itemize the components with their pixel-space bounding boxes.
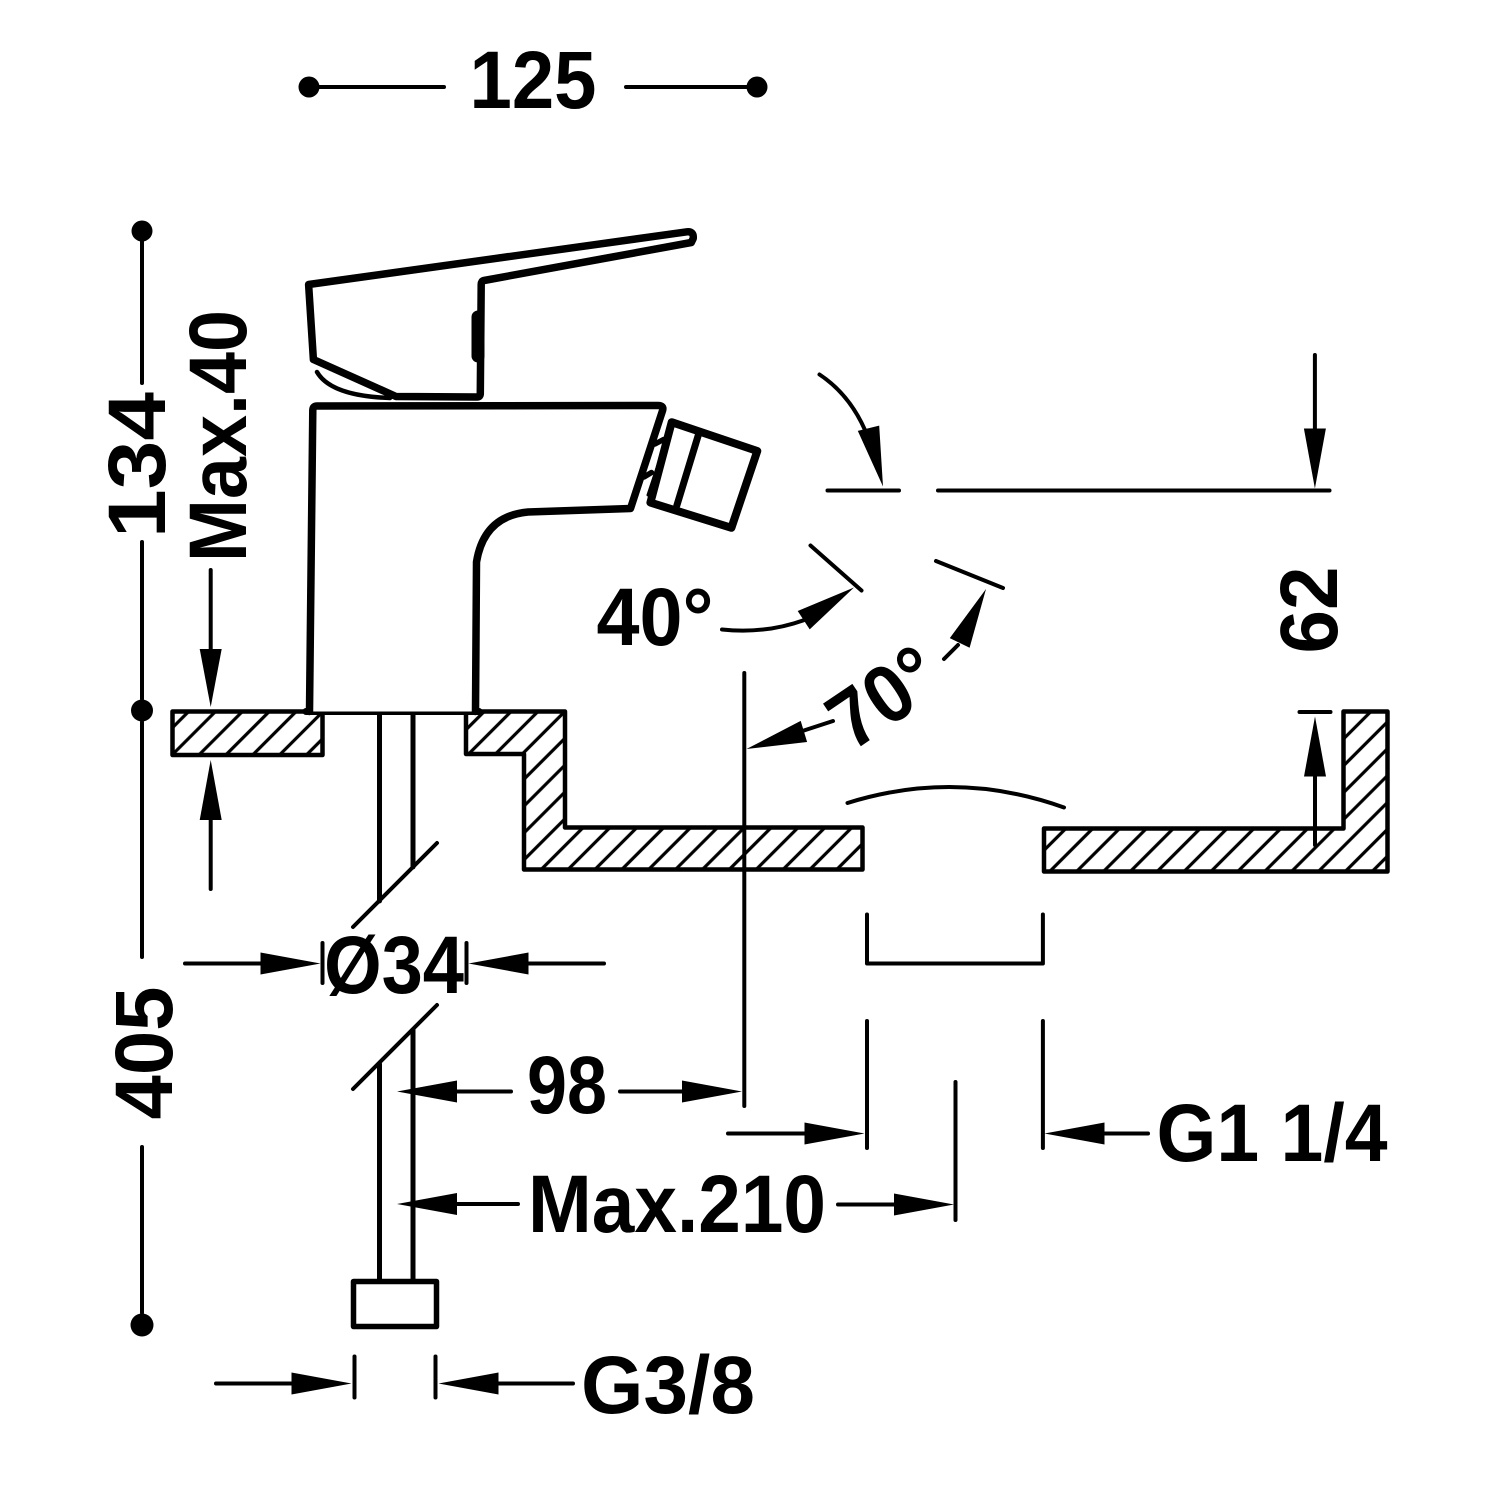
dim G3/8 right arrowhead <box>439 1373 499 1395</box>
faucet body <box>310 406 663 712</box>
faucet handle lever <box>309 232 694 397</box>
handle cartridge pin <box>472 317 485 356</box>
dim 70 right arrowhead <box>950 589 986 648</box>
svg-text:405: 405 <box>99 987 190 1120</box>
aerator inner thin line <box>648 429 670 495</box>
deck middle hatched section (bowl rim) <box>466 712 863 870</box>
dim 98 left arrowhead <box>397 1081 457 1103</box>
dim 98 left shaft <box>455 1090 511 1094</box>
dim 70 right arc segment <box>944 645 958 659</box>
dim O34 left arrowhead <box>261 953 321 975</box>
dim 98 right shaft <box>620 1090 684 1094</box>
dim G1 1/4 right arrowhead <box>1045 1123 1105 1145</box>
svg-text:125: 125 <box>470 35 597 126</box>
dim G3/8 left tick <box>353 1357 357 1398</box>
supply pipe right line lower <box>411 1030 416 1283</box>
dim 40 upper arc <box>820 375 866 431</box>
deck left hatched section <box>173 712 323 756</box>
outlet axis extension line <box>742 673 746 1106</box>
pipe break line lower <box>353 1005 437 1089</box>
faucet ball joint arc <box>317 372 390 398</box>
dim 405 lower line <box>140 1147 144 1313</box>
dim G3/8 right shaft <box>497 1382 573 1386</box>
dim 134 lower line <box>140 542 144 699</box>
dim 134 upper line <box>140 240 144 383</box>
dim 134 top dot <box>132 221 153 242</box>
dim 134/405 middle dot <box>131 700 153 722</box>
dim Max.40 upper arrowhead <box>200 649 222 707</box>
dim 125 right line <box>626 85 757 89</box>
supply pipe left line upper <box>377 714 382 901</box>
dim 70 left arrowhead <box>747 721 808 749</box>
svg-text:62: 62 <box>1264 567 1355 654</box>
dim G3/8 left shaft <box>216 1382 293 1386</box>
outlet reference line left segment <box>828 489 900 493</box>
faucet base line <box>306 708 479 715</box>
dim G1 1/4 right shaft <box>1102 1132 1148 1136</box>
deck right hatched section (bowl rim) <box>1044 712 1388 872</box>
dim 70 tick <box>936 561 1003 588</box>
dim 405 upper line <box>140 722 144 957</box>
dim Max.40 lower arrow shaft <box>209 818 213 889</box>
dim 98 right arrowhead <box>682 1081 742 1103</box>
svg-text:Max.210: Max.210 <box>528 1159 826 1250</box>
dim 40 lower arc arrowhead <box>798 588 854 630</box>
drain right extension line <box>1041 1021 1045 1148</box>
dim 125 right dot <box>747 77 768 98</box>
supply pipe right line upper <box>411 714 416 867</box>
dim O34 right arrow shaft <box>527 962 604 966</box>
dim 62 top tick <box>1300 710 1331 714</box>
supply pipe left line lower <box>377 1064 382 1283</box>
drain center extension line <box>954 1082 958 1220</box>
svg-text:G1 1/4: G1 1/4 <box>1157 1088 1388 1179</box>
dim G1 1/4 left arrowhead <box>805 1123 865 1145</box>
svg-text:G3/8: G3/8 <box>581 1340 755 1431</box>
dim 62 lower arrow shaft <box>1313 775 1317 845</box>
dim 125 left line <box>309 85 444 89</box>
outlet reference line right segment <box>938 489 1330 493</box>
dim O34 left arrow shaft <box>185 962 262 966</box>
aerator body <box>650 422 757 528</box>
dim 62 lower arrowhead <box>1304 717 1326 777</box>
dim 40 lower arc <box>722 620 804 630</box>
dim G3/8 right tick <box>434 1357 438 1398</box>
dim 70 left arc segment <box>804 721 833 731</box>
dim 125 left dot <box>299 77 320 98</box>
dim Max.40 lower arrowhead <box>200 760 222 820</box>
dim 62 upper arrowhead <box>1304 429 1326 489</box>
dim Max.210 left shaft <box>455 1202 518 1206</box>
pipe break line upper <box>353 843 437 927</box>
aerator collar tick upper <box>655 440 664 445</box>
drain left extension line <box>865 1021 869 1148</box>
drain hole U bracket <box>867 915 1043 964</box>
G3/8 connection block <box>354 1282 437 1327</box>
dim G1 1/4 left shaft <box>728 1132 806 1136</box>
dim 62 upper arrow shaft <box>1313 355 1317 430</box>
svg-text:134: 134 <box>92 392 183 538</box>
aerator divider line <box>677 435 699 506</box>
dim Max.210 left arrowhead <box>397 1193 457 1215</box>
svg-text:98: 98 <box>527 1040 607 1131</box>
dim 405 bottom dot <box>131 1314 154 1337</box>
aerator collar tick lower <box>644 473 652 478</box>
dim Max.40 upper arrow shaft <box>209 570 213 650</box>
dim O34 left tick <box>321 943 325 983</box>
bowl trajectory arc <box>848 787 1065 807</box>
dim 40 upper arc arrowhead <box>858 426 883 487</box>
dim Max.210 right arrowhead <box>894 1194 954 1216</box>
dim O34 right arrowhead <box>469 953 529 975</box>
dim O34 right tick <box>465 943 469 983</box>
dim 40 tick <box>811 546 862 591</box>
dim G3/8 left arrowhead <box>292 1373 352 1395</box>
svg-text:40°: 40° <box>597 572 714 663</box>
svg-text:Max.40: Max.40 <box>173 310 264 562</box>
dim Max.210 right shaft <box>838 1203 896 1207</box>
svg-text:Ø34: Ø34 <box>324 920 464 1011</box>
